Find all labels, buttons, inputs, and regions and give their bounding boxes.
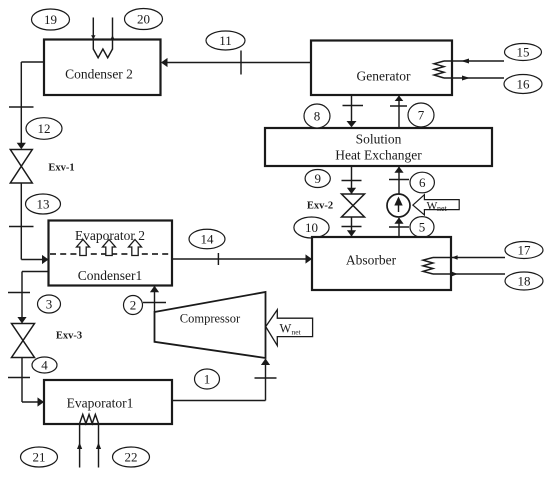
generator coil inlet line [444,59,504,64]
dashed divider [50,253,171,255]
evaporator 1 box [44,380,172,424]
svg-text:2: 2 [130,298,137,313]
absorber coil outlet line [433,272,505,277]
node 7 [408,103,434,127]
wire 3: condenser 1 to Exv-3 [8,272,49,324]
svg-text:Heat Exchanger: Heat Exchanger [335,148,422,163]
svg-text:15: 15 [517,45,530,60]
svg-text:W: W [427,200,438,212]
node 11 [206,31,245,50]
block arrow 1 [77,240,90,256]
wire 4: Exv-3 to evaporator 1 [8,358,44,407]
node 4 [32,357,57,373]
node 5 [410,217,434,238]
node 13 [26,194,61,214]
svg-text:Solution: Solution [356,132,402,147]
wire 10: Exv-2 to absorber [342,217,362,237]
compressor Wnet arrow [266,310,313,346]
svg-text:1: 1 [204,372,211,387]
node 14 [189,229,225,249]
pump Wnet arrow [413,195,459,215]
absorber coil zigzag [423,258,433,275]
condenser 2 coil outlet line [110,18,114,50]
svg-text:Exv-2: Exv-2 [307,201,333,212]
svg-text:11: 11 [219,33,232,48]
wire 7: SHE to generator [390,96,407,129]
generator coil outlet line [444,76,504,81]
node 2 [124,296,143,315]
svg-text:6: 6 [419,175,426,190]
condenser 2 box [44,40,161,96]
svg-text:W: W [280,322,292,336]
node 20 [125,9,163,30]
svg-text:net: net [437,204,448,213]
valve Exv-1 [10,150,32,184]
solution heat exchanger label [335,132,422,163]
wire 12: condenser 2 to Exv-1 [9,62,44,149]
evaporator 1 coil outlet line [96,424,101,468]
evaporator 1 coil inlet line [77,424,82,468]
svg-text:16: 16 [517,77,531,92]
svg-text:12: 12 [38,121,51,136]
svg-text:5: 5 [419,220,426,235]
node 15 [505,44,542,61]
solution heat exchanger box [265,128,492,166]
absorber coil inlet line [433,255,505,260]
node 1 [195,369,220,389]
svg-text:10: 10 [305,220,318,235]
node 22 [113,447,150,467]
svg-text:20: 20 [137,12,150,27]
valve Exv-3 [12,324,35,358]
wire 14: condenser 1 to absorber [172,253,312,265]
node 19 [32,9,70,30]
svg-text:22: 22 [125,450,138,465]
wire 9: SHE to Exv-2 [342,166,362,194]
wire 13: Exv-1 to evaporator 2 [9,183,49,264]
condenser 2 coil inlet line [91,18,95,50]
wire 6: pump to SHE [389,167,409,195]
svg-text:Condenser 2: Condenser 2 [65,67,133,82]
condenser 2 coil zigzag [93,49,112,58]
compressor [155,292,266,358]
block arrow 3 [129,240,142,256]
svg-text:9: 9 [314,171,321,186]
svg-text:13: 13 [37,197,50,212]
evaporator 2 / condenser 1 box [49,221,173,286]
svg-text:18: 18 [518,274,531,289]
node 16 [504,75,542,94]
svg-text:4: 4 [41,358,48,373]
node 9 [305,170,330,188]
generator coil zigzag [434,61,444,78]
node 21 [21,447,58,467]
node 6 [410,172,434,193]
wire 11: generator to condenser 2 [161,51,311,75]
svg-text:Generator: Generator [357,69,411,84]
block arrow 2 [103,240,116,256]
node 8 [304,104,330,128]
svg-text:net: net [292,328,302,337]
absorber box [312,237,451,290]
svg-text:8: 8 [314,109,321,124]
svg-text:Absorber: Absorber [346,253,397,268]
node 10 [294,217,329,238]
valve Exv-2 [342,194,365,217]
wire 2: compressor to condenser 1 [143,286,166,312]
svg-text:21: 21 [33,450,46,465]
node 18 [505,272,543,290]
wire 1: evaporator 1 to compressor [172,359,277,401]
wire 5: absorber to pump [389,218,409,238]
svg-text:Condenser1: Condenser1 [78,268,143,283]
evaporator 1 coil zigzag [80,415,99,424]
node 3 [38,295,61,313]
generator box [311,41,452,96]
svg-text:17: 17 [518,243,532,258]
svg-text:14: 14 [201,232,215,247]
node 17 [505,242,543,259]
svg-text:19: 19 [44,12,57,27]
svg-text:7: 7 [418,108,425,123]
svg-text:Exv-3: Exv-3 [56,331,82,342]
wire 8: generator to SHE [343,95,364,127]
node 12 [26,118,62,140]
svg-text:Compressor: Compressor [180,312,241,326]
pump P1 [387,194,410,217]
svg-text:3: 3 [46,297,53,312]
svg-text:Evaporator1: Evaporator1 [67,396,134,411]
svg-text:Exv-1: Exv-1 [48,163,74,174]
